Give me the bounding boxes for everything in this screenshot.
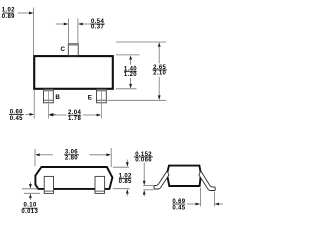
svg-text:1.20: 1.20 — [124, 72, 137, 78]
svg-text:0.066: 0.066 — [135, 158, 152, 164]
svg-text:0.45: 0.45 — [172, 206, 185, 212]
dimension 1.02/0.89 (top-left) — [2, 8, 34, 56]
dimension 0.60/0.45 (edge to pin center) — [9, 90, 56, 122]
side view foot 1 — [44, 176, 53, 193]
end view right gull-wing lead — [199, 171, 215, 191]
dimension 0.152/0.066 (lead thickness) — [134, 152, 154, 197]
dimension 0.54/0.37 (pin C width) — [56, 19, 105, 44]
pin E (bottom-right lead, top view) — [97, 89, 107, 103]
svg-text:2.80: 2.80 — [65, 155, 78, 161]
pin B centerline — [47, 91, 49, 119]
side view foot 2 — [95, 176, 105, 193]
dimension 2.04/1.78 (pin pitch B-E) — [49, 110, 102, 122]
svg-text:0.37: 0.37 — [91, 25, 104, 31]
svg-text:0.85: 0.85 — [119, 179, 132, 185]
dimension 3.06/2.80 (side view width) — [35, 148, 111, 167]
pin C (top lead, top view) — [68, 44, 78, 57]
dimension 1.02/0.85 (side view body height) — [113, 160, 132, 196]
svg-text:0.89: 0.89 — [2, 14, 15, 20]
end view left gull-wing lead — [154, 171, 169, 189]
dimension 2.65/2.10 (overall height, right) — [108, 42, 168, 100]
end view package body — [167, 166, 201, 186]
svg-text:2.10: 2.10 — [153, 71, 166, 77]
pin E centerline — [100, 91, 102, 119]
dimension 0.69/0.45 (lead foot length) — [172, 188, 222, 212]
svg-text:1.78: 1.78 — [68, 116, 81, 122]
svg-text:B: B — [55, 94, 60, 101]
svg-text:C: C — [61, 46, 66, 53]
dimension 0.10/0.013 (standoff) — [21, 182, 40, 215]
svg-text:0.013: 0.013 — [21, 209, 38, 215]
pin B (bottom-left lead, top view) — [44, 89, 54, 103]
svg-text:E: E — [88, 94, 92, 101]
svg-text:0.45: 0.45 — [10, 116, 23, 122]
top view package body — [34, 56, 113, 89]
side view package body — [35, 167, 112, 189]
dimension 1.40/1.20 (body height) — [116, 55, 140, 89]
